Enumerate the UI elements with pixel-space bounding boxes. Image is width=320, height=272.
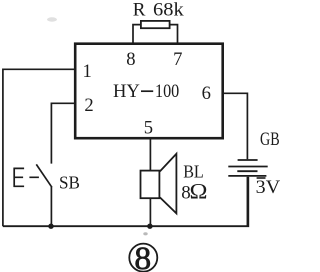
svg-text:3V: 3V (256, 177, 281, 198)
wire R right lead to pin 7 (170, 25, 178, 44)
battery GB plate short top (238, 159, 258, 161)
IC U1 HY-100 body (75, 44, 223, 139)
label HY-100 dash (141, 90, 153, 92)
wire pin 6 to battery (223, 93, 248, 159)
junction speaker to bottom rail (147, 224, 152, 229)
svg-text:1: 1 (82, 61, 91, 82)
switch SB actuator dashed link (14, 176, 39, 178)
svg-text:Ω: Ω (190, 179, 208, 204)
figure number circle (129, 244, 157, 272)
battery minus polarity dash (257, 177, 266, 179)
wire speaker to bottom rail (149, 198, 151, 226)
svg-text:6: 6 (202, 83, 211, 104)
svg-text:SB: SB (59, 173, 80, 193)
svg-text:5: 5 (144, 118, 153, 139)
resistor R body (141, 21, 170, 28)
battery GB plate long upper (228, 166, 267, 168)
svg-text:HY: HY (113, 81, 140, 102)
speaker BL driver box (141, 171, 160, 199)
wire pin 1 to left rail (3, 69, 75, 226)
svg-text:8: 8 (126, 49, 135, 70)
battery GB plate long bottom (228, 175, 266, 177)
speaker BL horn (160, 154, 177, 214)
switch SB push-button cap (14, 168, 25, 187)
junction switch to bottom rail (48, 224, 53, 229)
svg-text:R: R (133, 0, 146, 21)
wire pin 2 down to switch (51, 103, 75, 163)
svg-text:68k: 68k (153, 0, 184, 21)
svg-text:8: 8 (134, 241, 151, 272)
stray print speck above figure number (143, 232, 147, 235)
battery GB plate short lower (237, 170, 257, 172)
switch SB lower wire to bottom rail (50, 187, 52, 226)
wire bottom rail (3, 177, 248, 226)
svg-text:2: 2 (84, 95, 93, 116)
switch SB lever (36, 164, 52, 187)
wire battery to bottom rail (246, 177, 248, 226)
stray print speck upper left (47, 17, 57, 21)
wire pin 5 to speaker (149, 138, 151, 170)
svg-text:7: 7 (173, 49, 182, 70)
svg-text:GB: GB (260, 130, 280, 150)
wire R left lead to pin 8 (133, 25, 141, 44)
svg-text:100: 100 (155, 81, 179, 102)
